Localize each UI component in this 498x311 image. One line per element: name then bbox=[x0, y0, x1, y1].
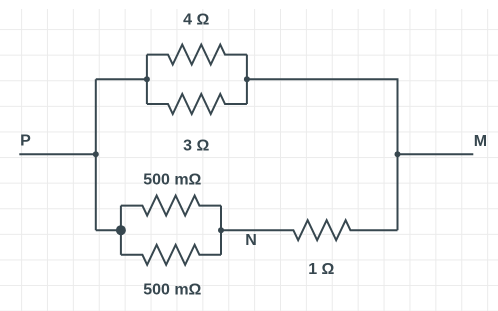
svg-text:3 Ω: 3 Ω bbox=[183, 137, 209, 154]
svg-text:500 mΩ: 500 mΩ bbox=[143, 282, 201, 299]
svg-text:500 mΩ: 500 mΩ bbox=[143, 172, 201, 189]
svg-text:4 Ω: 4 Ω bbox=[183, 11, 209, 28]
svg-text:1 Ω: 1 Ω bbox=[308, 261, 334, 278]
svg-text:P: P bbox=[20, 133, 31, 150]
svg-text:N: N bbox=[245, 232, 257, 249]
svg-text:M: M bbox=[474, 133, 487, 150]
